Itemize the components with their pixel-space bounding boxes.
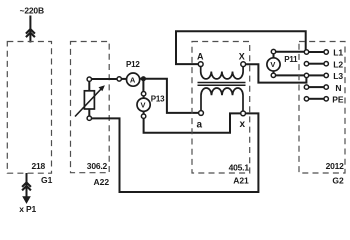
svg-text:N: N: [335, 83, 341, 93]
wire terminal to ammeter: [122, 78, 127, 80]
G2 supply terminal module box: [299, 42, 345, 174]
terminal A: [198, 62, 203, 67]
transformer T1 secondary winding: [201, 88, 243, 111]
svg-text:L1: L1: [333, 48, 343, 58]
terminal pair PE: [304, 97, 328, 101]
junction node: [141, 77, 145, 81]
wire P13 bottom to transformer terminal x: [144, 113, 241, 132]
wire terminal A to L1 top bus: [176, 31, 306, 64]
terminal pair L2: [304, 62, 328, 66]
A22 rheostat module box: [71, 42, 110, 173]
terminal pair L3: [304, 73, 328, 77]
wire terminal x to return bus to rheostat: [92, 113, 259, 192]
rheostat R1: [75, 81, 105, 117]
wire P11 top terminal to meter: [273, 54, 275, 58]
svg-text:Р12: Р12: [126, 60, 140, 69]
terminal P13 bottom: [141, 114, 145, 118]
svg-text:а: а: [197, 119, 203, 130]
transformer T1 primary winding: [201, 67, 243, 79]
wire G1 output to P1: [26, 173, 28, 197]
svg-text:405.1: 405.1: [229, 162, 250, 172]
svg-text:Х: Х: [239, 51, 245, 61]
arrowhead to P1: [22, 196, 31, 204]
wire terminal X to L3: [246, 64, 307, 82]
svg-text:х: х: [240, 119, 246, 130]
terminal P13 top: [141, 92, 145, 96]
svg-text:V: V: [270, 60, 275, 69]
svg-text:A22: A22: [94, 177, 110, 187]
wire terminal to P13: [143, 96, 145, 99]
svg-text:306.2: 306.2: [87, 161, 108, 171]
svg-text:х Р1: х Р1: [19, 204, 36, 214]
svg-text:L2: L2: [333, 59, 343, 69]
wire P11 bottom to L3: [276, 74, 305, 76]
terminal x: [241, 111, 246, 116]
svg-text:Р11: Р11: [284, 55, 298, 64]
A21 transformer module box: [192, 42, 250, 174]
svg-text:A21: A21: [233, 176, 249, 186]
svg-text:PE: PE: [332, 95, 344, 105]
terminal before ammeter: [117, 77, 121, 81]
svg-text:~220В: ~220В: [20, 6, 44, 16]
terminal rheostat top: [87, 77, 91, 81]
terminal a: [199, 111, 204, 116]
svg-text:2012: 2012: [326, 161, 345, 171]
terminal pair L1: [304, 50, 328, 54]
transformer core: [198, 83, 246, 86]
wire P13 to terminal: [143, 111, 145, 114]
svg-text:L3: L3: [333, 71, 343, 81]
ammeter P12: [127, 73, 140, 86]
svg-text:218: 218: [32, 161, 46, 171]
svg-text:Р13: Р13: [151, 94, 165, 103]
svg-text:А: А: [197, 52, 204, 62]
svg-text:G1: G1: [41, 175, 53, 185]
terminal X: [241, 62, 246, 67]
wire rheostat to ammeter terminal: [92, 78, 117, 80]
terminal P11 bottom: [271, 73, 275, 77]
wire ammeter to junction: [139, 78, 141, 80]
svg-text:V: V: [141, 101, 146, 110]
terminal pair N: [304, 85, 328, 89]
voltmeter P13: [137, 98, 150, 111]
wire P11 top to L1: [276, 51, 305, 53]
wire junction down to voltmeter P13: [142, 81, 144, 92]
G1 supply module box: [7, 42, 51, 174]
connector chevrons 220V (pointing up): [26, 29, 35, 37]
svg-text:А: А: [130, 76, 136, 85]
terminal P11 top: [271, 49, 275, 53]
connector chevrons to P1 (pointing up): [22, 183, 31, 191]
voltmeter P11: [267, 58, 280, 71]
wire P11 meter to bottom terminal: [273, 71, 275, 73]
svg-text:G2: G2: [332, 176, 344, 186]
wire 220V feed into G1: [29, 16, 31, 43]
terminal rheostat bottom: [87, 116, 91, 120]
wire junction to transformer terminal a: [146, 79, 199, 113]
